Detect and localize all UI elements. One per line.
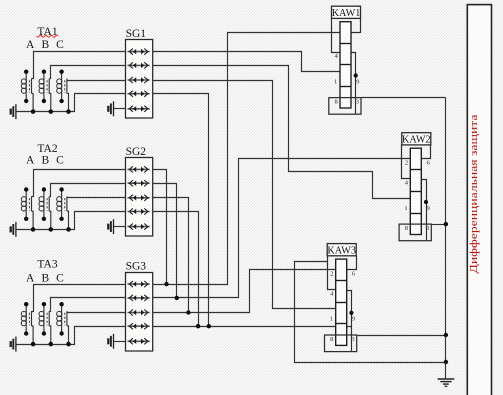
SG2 jumper row 1 [128, 166, 150, 172]
SG1 jumper row 1 [128, 49, 150, 55]
junction: TA3 bus phase B [49, 342, 53, 346]
junction: KAW3 pin 9 [349, 311, 353, 315]
svg-text:6: 6 [352, 270, 356, 277]
svg-text:KAW2: KAW2 [402, 135, 431, 146]
wire: SG1 row3 to KAW3 pin1 [153, 81, 336, 309]
junction: KAW1 pin 9 [354, 73, 358, 77]
junction: TA2 bus phase B [49, 227, 53, 231]
wire: KAW3 output [358, 335, 446, 337]
wire: relay return bus to ground [445, 98, 447, 379]
svg-text:B: B [41, 273, 49, 285]
wire: KAW1 output [362, 97, 446, 99]
SG1 jumper row 3 [128, 77, 150, 83]
svg-text:TA3: TA3 [37, 259, 57, 271]
wire: phase C lead to SG row3 [67, 312, 126, 314]
wire: SG3 row5 to ground [114, 341, 126, 343]
wire: SG1 row2 to KAW2 pin1 [153, 66, 411, 199]
wire: SG2 row2 down to SG3 row2 [153, 184, 177, 298]
junction: pin4 return on return bus [444, 360, 448, 364]
wire: TA2 secondary common bus [16, 212, 126, 230]
junction: TA1 bus phase C [66, 109, 70, 113]
svg-text:2: 2 [405, 160, 408, 167]
svg-text:B: B [41, 39, 49, 51]
wire: TA3 secondary common bus [16, 327, 126, 345]
svg-text:C: C [56, 39, 64, 51]
relay KAW3 body [325, 244, 357, 352]
svg-text:KAW3: KAW3 [327, 245, 356, 256]
current transformer TA1 phase B [39, 70, 53, 114]
current transformer TA1 phase C [57, 70, 71, 114]
wire: phase C lead to SG row3 [67, 80, 126, 82]
wire: SG1 row5 to ground [114, 108, 126, 110]
ground (SG1 row5) [108, 101, 113, 116]
wire: phase A lead to SG row1 [32, 285, 126, 312]
SG2 jumper row 3 [128, 195, 150, 201]
wire: KAW3 pin4 to ground return [295, 262, 446, 363]
SG3 jumper row 1 [128, 281, 150, 287]
wire: KAW2 output [432, 224, 446, 226]
svg-text:C: C [56, 154, 64, 166]
svg-text:4: 4 [405, 179, 409, 186]
wire: SG3 row2 to KAW2 coil input [153, 159, 411, 298]
junction: KAW2 output on return bus [444, 222, 448, 226]
svg-text:6: 6 [426, 160, 430, 167]
wire: phase A lead to SG row1 [32, 170, 126, 197]
svg-text:SG1: SG1 [126, 28, 147, 40]
wire: phase C lead to SG row3 [67, 197, 126, 199]
svg-text:8: 8 [405, 225, 409, 232]
wire: SG2 row1 down to SG3 row1 [153, 170, 167, 285]
junction: TA2 bus phase A [31, 227, 35, 231]
ground (SG2 row5) [108, 219, 113, 234]
svg-text:C: C [56, 273, 64, 285]
junction: TA2 bus phase C [66, 227, 70, 231]
SG1 jumper row 5 [128, 106, 150, 112]
svg-text:3: 3 [356, 99, 360, 106]
wire: SG1 row4 to SG3 row4 [153, 94, 209, 327]
frame: right tool/label box [467, 5, 491, 395]
junction: TA3 bus phase A [31, 342, 35, 346]
svg-text:2: 2 [330, 270, 333, 277]
wire: SG3 row4 to KAW3 pin9 branch [153, 326, 352, 328]
svg-text:3: 3 [426, 225, 430, 232]
wire: SG3 row1 to KAW1 coil input [153, 33, 341, 285]
svg-text:KAW1: KAW1 [332, 8, 361, 19]
junction: KAW2 pin 9 [424, 200, 428, 204]
SG3 jumper row 5 [128, 338, 150, 344]
wire: phase B lead to SG row2 [50, 184, 126, 197]
svg-text:B: B [41, 154, 49, 166]
svg-text:SG3: SG3 [126, 261, 147, 273]
svg-text:Дифференциальная защита: Дифференциальная защита [468, 114, 480, 273]
wire: TA1 secondary common bus [16, 94, 126, 112]
spellcheck squiggle under TA1 [37, 35, 59, 37]
SG3 jumper row 4 [128, 323, 150, 329]
current transformer TA1 phase A [21, 70, 35, 114]
ground (TA3 bus) [11, 337, 16, 352]
junction: TA3 bus phase C [66, 342, 70, 346]
svg-text:TA2: TA2 [37, 143, 57, 155]
current transformer TA2 phase C [57, 187, 71, 231]
current transformer TA3 phase B [39, 302, 53, 346]
SG3 jumper row 3 [128, 309, 150, 315]
svg-text:SG2: SG2 [126, 146, 147, 158]
wire: phase B lead to SG row2 [50, 298, 126, 312]
svg-text:8: 8 [330, 336, 334, 343]
wire: SG2 row3 down to SG3 row3 [153, 198, 189, 313]
SG1 jumper row 2 [128, 62, 150, 68]
junction: KAW3 output on return bus [444, 333, 448, 337]
SG1 jumper row 4 [128, 91, 150, 97]
svg-text:4: 4 [334, 53, 338, 60]
SG3 jumper row 2 [128, 295, 150, 301]
SG2 jumper row 5 [128, 224, 150, 230]
svg-text:A: A [26, 39, 35, 51]
svg-text:9: 9 [356, 78, 360, 85]
test block SG2 [126, 158, 153, 237]
wire: SG2 row4 down to SG3 row4 [153, 212, 199, 327]
junction: SG3 row1 [164, 282, 168, 286]
SG2 jumper row 2 [128, 180, 150, 186]
junction: TA1 bus phase B [49, 109, 53, 113]
wire: SG3 row3 to KAW3 coil input [153, 270, 336, 313]
svg-text:3: 3 [351, 336, 355, 343]
junction: SG3 row4 b [207, 324, 211, 328]
svg-text:8: 8 [334, 99, 338, 106]
relay KAW1 body [329, 6, 361, 114]
current transformer TA3 phase A [21, 302, 35, 346]
label: vertical red text [468, 114, 480, 273]
svg-text:A: A [26, 154, 35, 166]
ground (bottom right) [438, 379, 455, 386]
wire: SG2 row5 to ground [114, 226, 126, 228]
wire: SG1 row1 to KAW1 pin1 [153, 52, 341, 72]
current transformer TA2 phase A [21, 187, 35, 231]
svg-text:9: 9 [352, 316, 356, 323]
wire: phase A lead to SG row1 [32, 52, 126, 79]
test block SG3 [126, 273, 153, 352]
relay KAW2 body [399, 133, 431, 241]
ground (TA1 bus) [11, 104, 16, 119]
SG2 jumper row 4 [128, 208, 150, 214]
current transformer TA2 phase B [39, 187, 53, 231]
ground (TA2 bus) [11, 222, 16, 237]
svg-text:1: 1 [330, 316, 333, 323]
junction: SG3 row3 [186, 310, 190, 314]
svg-text:1: 1 [404, 205, 407, 212]
wire: phase B lead to SG row2 [50, 66, 126, 79]
svg-text:9: 9 [426, 205, 430, 212]
svg-text:A: A [26, 273, 35, 285]
junction: SG3 row2 [175, 296, 179, 300]
ground (SG3 row5) [108, 334, 113, 349]
junction: SG3 row4 a [196, 324, 200, 328]
svg-text:4: 4 [330, 290, 334, 297]
test block SG1 [126, 40, 153, 119]
svg-text:1: 1 [334, 78, 337, 85]
current transformer TA3 phase C [57, 302, 71, 346]
junction: TA1 bus phase A [31, 109, 35, 113]
